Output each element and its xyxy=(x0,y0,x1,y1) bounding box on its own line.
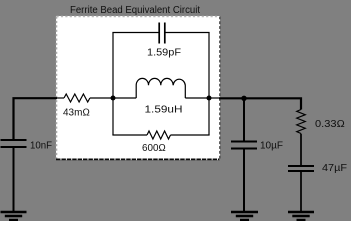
capacitor 10uF xyxy=(231,142,257,149)
ground middle xyxy=(231,212,258,220)
label 10nF xyxy=(30,141,52,152)
capacitor 47uF xyxy=(288,166,314,171)
label 600Ohm xyxy=(142,143,166,154)
label 10uF xyxy=(260,141,283,152)
node output junction xyxy=(241,96,246,101)
ground left xyxy=(1,212,27,220)
wire resistor to 47uF xyxy=(300,134,302,165)
capacitor 1.59pF xyxy=(159,23,165,44)
label 43mOhm xyxy=(63,108,90,119)
label 47uF xyxy=(322,163,347,174)
inductor 1.59uH xyxy=(136,78,185,98)
wire output to right corner xyxy=(244,98,301,109)
ground right xyxy=(288,212,314,220)
svg-text:47µF: 47µF xyxy=(322,163,347,174)
node left junction xyxy=(111,96,116,101)
wire top branch right xyxy=(165,32,210,34)
wire top branch left xyxy=(112,32,159,34)
svg-text:43mΩ: 43mΩ xyxy=(63,108,90,119)
wire loop to output node xyxy=(209,97,244,99)
wire loop left vertical xyxy=(112,33,114,136)
svg-text:1.59pF: 1.59pF xyxy=(147,48,181,59)
resistor 0.33Ohm xyxy=(297,110,306,134)
wire loop right vertical xyxy=(208,33,210,136)
wire middle branch right xyxy=(185,97,209,99)
wire 10nF to ground xyxy=(13,148,15,211)
label 1.59pF xyxy=(147,48,181,59)
wire bottom branch left xyxy=(112,134,147,136)
label 0.33Ohm xyxy=(315,119,345,130)
wire middle branch left xyxy=(113,97,136,99)
wire bottom branch right xyxy=(171,134,210,136)
svg-text:Ferrite Bead Equivalent Circui: Ferrite Bead Equivalent Circuit xyxy=(70,5,200,16)
svg-text:10nF: 10nF xyxy=(30,141,52,152)
wire input corner (left node to 43m resistor) xyxy=(14,98,65,139)
capacitor 10nF xyxy=(1,140,27,147)
dashed equivalent-circuit box xyxy=(56,16,220,160)
wire resistor to left node of loop xyxy=(90,97,113,99)
svg-text:0.33Ω: 0.33Ω xyxy=(315,119,345,130)
svg-text:1.59uH: 1.59uH xyxy=(145,105,183,116)
wire output node to 10uF xyxy=(243,98,245,141)
label 1.59uH xyxy=(145,105,183,116)
title: Ferrite Bead Equivalent Circuit xyxy=(70,5,200,16)
svg-text:600Ω: 600Ω xyxy=(142,143,166,154)
resistor 43mOhm xyxy=(64,94,90,102)
svg-text:10µF: 10µF xyxy=(260,141,283,152)
node right junction xyxy=(207,96,212,101)
resistor 600Ohm xyxy=(147,131,170,139)
wire 47uF to ground xyxy=(300,172,302,211)
wire 10uF to ground xyxy=(243,150,245,212)
